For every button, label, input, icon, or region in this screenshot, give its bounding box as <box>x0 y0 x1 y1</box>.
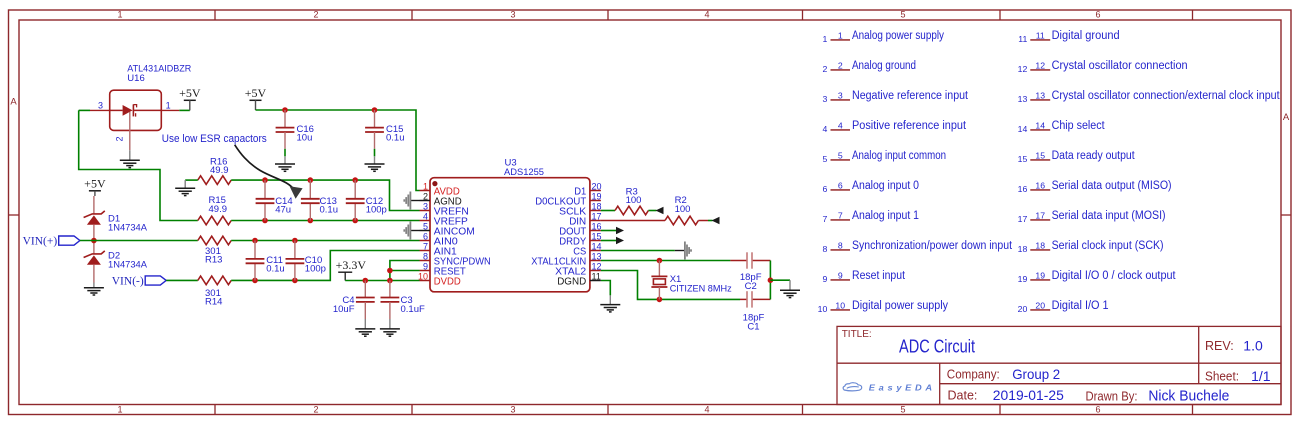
svg-text:5: 5 <box>900 10 905 20</box>
svg-text:13: 13 <box>1018 94 1028 104</box>
svg-text:Digital I/O 0 / clock output: Digital I/O 0 / clock output <box>1052 270 1177 282</box>
svg-text:15: 15 <box>1018 154 1028 164</box>
svg-text:20: 20 <box>592 181 602 191</box>
svg-text:DVDD: DVDD <box>434 276 461 287</box>
svg-text:49.9: 49.9 <box>209 204 228 215</box>
svg-text:12: 12 <box>1018 64 1028 74</box>
svg-text:3: 3 <box>838 90 843 100</box>
svg-text:1.0: 1.0 <box>1243 337 1263 353</box>
svg-text:18: 18 <box>1035 240 1045 250</box>
svg-text:Group 2: Group 2 <box>1012 366 1060 382</box>
svg-text:17: 17 <box>1035 210 1045 220</box>
svg-text:Crystal oscillator connection: Crystal oscillator connection <box>1052 60 1188 72</box>
svg-text:Reset input: Reset input <box>852 270 906 282</box>
svg-text:CITIZEN 8MHz: CITIZEN 8MHz <box>670 283 732 294</box>
svg-text:14: 14 <box>1035 120 1045 130</box>
svg-text:Synchronization/power down inp: Synchronization/power down input <box>852 240 1013 252</box>
svg-text:Analog input common: Analog input common <box>852 150 946 162</box>
svg-text:Company:: Company: <box>947 367 1000 381</box>
svg-text:1N4734A: 1N4734A <box>108 223 148 234</box>
svg-text:1: 1 <box>838 30 843 40</box>
svg-text:R13: R13 <box>205 255 222 266</box>
svg-text:19: 19 <box>1035 270 1045 280</box>
svg-text:Serial data input (MOSI): Serial data input (MOSI) <box>1052 210 1166 222</box>
svg-text:3: 3 <box>423 201 428 211</box>
svg-text:13: 13 <box>592 251 602 261</box>
svg-text:10uF: 10uF <box>333 304 355 315</box>
svg-text:14: 14 <box>1018 124 1028 134</box>
svg-text:Digital ground: Digital ground <box>1052 30 1120 42</box>
svg-text:6: 6 <box>1095 404 1100 414</box>
svg-text:1N4734A: 1N4734A <box>108 260 148 271</box>
svg-text:Date:: Date: <box>948 388 978 402</box>
svg-text:1: 1 <box>166 101 171 111</box>
svg-text:Data ready output: Data ready output <box>1052 150 1136 162</box>
svg-text:9: 9 <box>838 270 843 280</box>
svg-text:Chip select: Chip select <box>1052 120 1106 132</box>
svg-text:1: 1 <box>423 181 428 191</box>
svg-text:Nick Buchele: Nick Buchele <box>1148 388 1229 405</box>
svg-text:13: 13 <box>1035 90 1045 100</box>
svg-text:Use low ESR capactors: Use low ESR capactors <box>162 133 267 145</box>
svg-text:7: 7 <box>822 214 827 224</box>
svg-text:16: 16 <box>1035 180 1045 190</box>
svg-text:EasyEDA: EasyEDA <box>869 383 936 393</box>
svg-text:2: 2 <box>838 60 843 70</box>
svg-text:ADC Circuit: ADC Circuit <box>899 336 975 356</box>
svg-text:U16: U16 <box>127 73 144 84</box>
svg-text:Positive reference input: Positive reference input <box>852 120 967 132</box>
svg-text:8: 8 <box>822 244 827 254</box>
svg-text:5: 5 <box>838 150 843 160</box>
svg-text:0.1u: 0.1u <box>266 264 285 275</box>
svg-text:6: 6 <box>838 180 843 190</box>
svg-text:49.9: 49.9 <box>210 165 229 176</box>
svg-text:4: 4 <box>838 120 843 130</box>
svg-text:17: 17 <box>1018 214 1028 224</box>
svg-text:8: 8 <box>838 240 843 250</box>
svg-text:11: 11 <box>1018 34 1027 44</box>
svg-text:100p: 100p <box>366 205 387 216</box>
svg-text:2: 2 <box>423 191 428 201</box>
svg-text:+5V: +5V <box>245 86 267 100</box>
svg-text:17: 17 <box>592 211 602 221</box>
svg-text:19: 19 <box>592 191 602 201</box>
svg-text:14: 14 <box>592 241 602 251</box>
svg-text:Crystal oscillator connection/: Crystal oscillator connection/external c… <box>1052 90 1281 102</box>
svg-text:Drawn By:: Drawn By: <box>1086 389 1138 403</box>
svg-text:VIN(-): VIN(-) <box>112 276 144 288</box>
svg-text:3: 3 <box>822 94 827 104</box>
svg-text:REV:: REV: <box>1205 339 1234 353</box>
svg-text:16: 16 <box>592 221 602 231</box>
svg-text:A: A <box>1283 112 1290 123</box>
svg-text:4: 4 <box>822 124 827 134</box>
svg-text:+5V: +5V <box>84 177 106 191</box>
svg-text:Digital power supply: Digital power supply <box>852 300 948 312</box>
svg-text:6: 6 <box>423 231 428 241</box>
svg-text:10: 10 <box>835 300 845 310</box>
svg-text:1: 1 <box>117 404 122 414</box>
svg-text:47u: 47u <box>275 205 291 216</box>
svg-text:Serial data output (MISO): Serial data output (MISO) <box>1052 180 1172 192</box>
svg-text:8: 8 <box>423 251 428 261</box>
svg-text:15: 15 <box>592 231 602 241</box>
svg-text:19: 19 <box>1018 274 1028 284</box>
svg-text:R14: R14 <box>205 297 222 308</box>
svg-text:2: 2 <box>822 64 827 74</box>
svg-text:Digital I/O 1: Digital I/O 1 <box>1052 300 1109 312</box>
svg-text:2019-01-25: 2019-01-25 <box>993 387 1064 403</box>
svg-text:0.1u: 0.1u <box>386 133 405 144</box>
svg-text:3: 3 <box>98 101 103 111</box>
svg-text:2: 2 <box>115 137 125 142</box>
svg-text:+5V: +5V <box>179 86 201 100</box>
svg-text:Analog power supply: Analog power supply <box>852 30 944 42</box>
svg-text:18: 18 <box>592 201 602 211</box>
svg-text:C2: C2 <box>745 281 757 292</box>
svg-text:6: 6 <box>822 184 827 194</box>
svg-text:9: 9 <box>423 261 428 271</box>
svg-text:10: 10 <box>818 304 828 314</box>
svg-text:100: 100 <box>675 204 691 215</box>
svg-text:Analog input 1: Analog input 1 <box>852 210 919 222</box>
svg-text:5: 5 <box>423 221 428 231</box>
svg-text:A: A <box>10 97 17 108</box>
svg-text:2: 2 <box>313 10 318 20</box>
svg-text:12: 12 <box>592 261 602 271</box>
svg-text:18: 18 <box>1018 244 1028 254</box>
svg-text:10u: 10u <box>297 133 313 144</box>
svg-text:3: 3 <box>510 10 515 20</box>
svg-text:1: 1 <box>822 34 827 44</box>
svg-text:3: 3 <box>510 404 515 414</box>
svg-text:5: 5 <box>900 404 905 414</box>
svg-text:0.1u: 0.1u <box>320 205 339 216</box>
svg-text:ADS1255: ADS1255 <box>504 167 544 178</box>
svg-text:20: 20 <box>1018 304 1028 314</box>
svg-text:100p: 100p <box>305 264 326 275</box>
svg-text:11: 11 <box>592 271 601 281</box>
svg-text:12: 12 <box>1035 60 1045 70</box>
svg-text:11: 11 <box>1036 30 1045 40</box>
svg-text:0.1uF: 0.1uF <box>401 304 425 315</box>
svg-text:VIN(+): VIN(+) <box>23 236 58 248</box>
svg-text:20: 20 <box>1035 300 1045 310</box>
svg-text:Analog input 0: Analog input 0 <box>852 180 919 192</box>
svg-text:Analog ground: Analog ground <box>852 60 916 72</box>
svg-text:5: 5 <box>822 154 827 164</box>
svg-text:TITLE:: TITLE: <box>842 329 872 340</box>
svg-text:100: 100 <box>626 195 642 206</box>
svg-text:4: 4 <box>423 211 428 221</box>
svg-text:7: 7 <box>838 210 843 220</box>
svg-text:C1: C1 <box>747 321 759 332</box>
svg-text:7: 7 <box>423 241 428 251</box>
svg-text:4: 4 <box>704 404 709 414</box>
svg-text:6: 6 <box>1095 10 1100 20</box>
svg-text:Serial clock input (SCK): Serial clock input (SCK) <box>1052 240 1164 252</box>
svg-text:1/1: 1/1 <box>1251 368 1271 384</box>
svg-text:Negative reference input: Negative reference input <box>852 90 969 102</box>
svg-text:4: 4 <box>704 10 709 20</box>
svg-text:DGND: DGND <box>557 276 586 287</box>
svg-text:16: 16 <box>1018 184 1028 194</box>
svg-text:2: 2 <box>313 404 318 414</box>
svg-text:+3.3V: +3.3V <box>336 258 367 272</box>
svg-text:9: 9 <box>822 274 827 284</box>
svg-text:15: 15 <box>1035 150 1045 160</box>
svg-text:Sheet:: Sheet: <box>1205 370 1239 384</box>
svg-text:1: 1 <box>117 10 122 20</box>
